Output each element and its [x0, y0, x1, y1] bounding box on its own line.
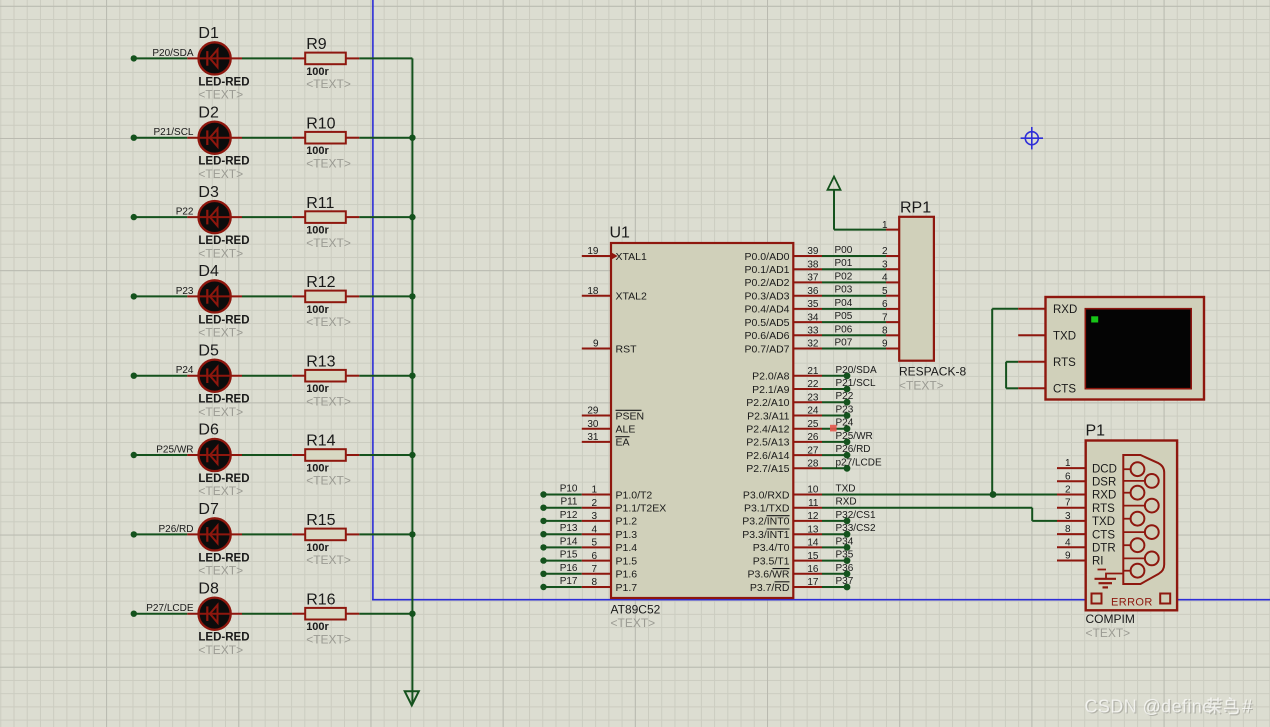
svg-text:17: 17 — [807, 577, 819, 588]
pin 26 P2.5/A13 wire P25/WR — [793, 441, 822, 443]
svg-text:5: 5 — [882, 286, 888, 297]
svg-text:1: 1 — [1065, 458, 1071, 469]
node P25/WR terminal dot — [131, 452, 137, 458]
svg-text:8: 8 — [591, 577, 597, 588]
wire D5 to R13 — [242, 375, 292, 377]
svg-text:P24: P24 — [176, 365, 194, 376]
LED D1 — [187, 25, 249, 102]
svg-text:100r: 100r — [306, 542, 329, 554]
wire RTS-CTS loopback — [1006, 361, 1018, 363]
svg-text:RXD: RXD — [1053, 304, 1077, 316]
junction on bus row 2 — [409, 135, 415, 141]
wire R16 to bus — [359, 613, 412, 615]
pin 5 P1.4 wire P14 — [540, 544, 546, 550]
resistor R16 100r — [292, 591, 359, 646]
svg-text:<TEXT>: <TEXT> — [1086, 626, 1131, 640]
svg-text:XTAL2: XTAL2 — [616, 291, 647, 303]
svg-text:100r: 100r — [306, 383, 329, 395]
pin 29 PSEN stub — [582, 415, 611, 417]
svg-text:ERROR: ERROR — [1111, 597, 1153, 609]
virtual terminal — [1046, 297, 1205, 400]
pin 10 P3.0/RXD wire TXD — [793, 494, 822, 496]
svg-text:<TEXT>: <TEXT> — [198, 167, 243, 181]
svg-text:RI: RI — [1092, 556, 1104, 568]
svg-text:P12: P12 — [560, 510, 578, 521]
svg-text:P13: P13 — [560, 523, 578, 534]
LED D5 — [187, 342, 249, 419]
svg-text:LED-RED: LED-RED — [198, 394, 249, 406]
svg-text:P00: P00 — [835, 245, 853, 256]
svg-text:DTR: DTR — [1092, 543, 1116, 555]
junction on bus row 3 — [409, 214, 415, 220]
svg-text:P1.3: P1.3 — [616, 529, 638, 541]
svg-text:P05: P05 — [835, 311, 853, 322]
svg-text:R11: R11 — [306, 195, 334, 212]
resistor R11 100r — [292, 195, 359, 250]
svg-text:D4: D4 — [198, 263, 219, 280]
svg-text:29: 29 — [587, 406, 599, 417]
wire R14 to bus — [359, 454, 412, 456]
svg-text:RP1: RP1 — [900, 200, 931, 217]
pin 2 P1.1/T2EX wire P11 — [540, 505, 546, 511]
svg-text:P1.6: P1.6 — [616, 569, 638, 581]
svg-text:AT89C52: AT89C52 — [611, 603, 661, 617]
junction on bus row 5 — [409, 373, 415, 379]
svg-text:D7: D7 — [198, 501, 219, 518]
svg-text:<TEXT>: <TEXT> — [198, 326, 243, 340]
svg-text:D2: D2 — [198, 104, 219, 121]
svg-text:P23: P23 — [176, 286, 194, 297]
svg-text:P15: P15 — [560, 550, 578, 561]
svg-text:P2.2/A10: P2.2/A10 — [746, 397, 789, 409]
svg-text:16: 16 — [807, 564, 819, 575]
pin 27 P2.6/A14 wire P26/RD — [793, 454, 822, 456]
resistor R12 100r — [292, 274, 359, 329]
pin 8 P1.7 wire P17 — [540, 584, 546, 590]
svg-text:P0.2/AD2: P0.2/AD2 — [745, 277, 790, 289]
pin 32 P0.7/AD7 wire P07 to RP1 — [793, 348, 822, 350]
pin 28 P2.7/A15 wire p27/LCDE — [793, 467, 822, 469]
COMPIM P1 — [1086, 423, 1178, 641]
svg-text:31: 31 — [587, 432, 599, 443]
wire D6 to R14 — [242, 454, 292, 456]
svg-text:37: 37 — [807, 273, 819, 284]
svg-text:TXD: TXD — [836, 484, 856, 495]
power terminal arrow — [828, 177, 841, 190]
svg-text:RST: RST — [616, 343, 638, 355]
svg-text:#: # — [1242, 696, 1253, 717]
junction node TXD/terminal — [990, 491, 997, 498]
svg-text:P0.3/AD3: P0.3/AD3 — [745, 291, 790, 303]
pin 3 P1.2 wire P12 — [540, 518, 546, 524]
svg-text:<TEXT>: <TEXT> — [306, 553, 351, 567]
svg-text:11: 11 — [808, 498, 819, 509]
pin 34 P0.5/AD5 wire P05 to RP1 — [793, 321, 822, 323]
wire terminal RXD drop — [991, 309, 993, 495]
sheet border vertical blue line — [372, 0, 374, 600]
svg-text:26: 26 — [807, 432, 819, 443]
svg-text:P2.0/A8: P2.0/A8 — [752, 371, 790, 383]
svg-text:P25/WR: P25/WR — [156, 444, 193, 455]
junction on bus row 4 — [409, 293, 415, 299]
svg-text:P1.2: P1.2 — [616, 516, 638, 528]
svg-text:4: 4 — [1065, 537, 1071, 548]
pin 1 P1.0/T2 wire P10 — [540, 491, 546, 497]
svg-text:LED-RED: LED-RED — [198, 632, 249, 644]
resistor R15 100r — [292, 512, 359, 567]
svg-text:100r: 100r — [306, 621, 329, 633]
svg-text:TXD: TXD — [1092, 516, 1115, 528]
wire R15 to bus — [359, 533, 412, 535]
svg-text:<TEXT>: <TEXT> — [306, 156, 351, 170]
wire D1 to R9 — [242, 57, 292, 59]
svg-text:P1.4: P1.4 — [616, 542, 638, 554]
svg-text:COMPIM: COMPIM — [1086, 612, 1135, 626]
svg-text:21: 21 — [807, 366, 819, 377]
LED D4 — [187, 263, 249, 340]
pin 25 P2.4/A12 wire P24 — [793, 428, 822, 430]
pin 17 P3.7/RD wire P37 — [793, 586, 822, 588]
svg-text:LED-RED: LED-RED — [198, 552, 249, 564]
wire R13 to bus — [359, 375, 412, 377]
svg-text:4: 4 — [882, 273, 888, 284]
resistor R9 100r — [292, 36, 359, 91]
svg-text:LED-RED: LED-RED — [198, 156, 249, 168]
svg-text:P0.6/AD6: P0.6/AD6 — [745, 330, 790, 342]
svg-text:D3: D3 — [198, 184, 219, 201]
svg-text:7: 7 — [882, 312, 888, 323]
svg-text:3: 3 — [591, 511, 597, 522]
wire D4 to R12 — [242, 295, 292, 297]
COMPIM pin 4 stub — [1057, 546, 1086, 548]
svg-text:P1.7: P1.7 — [616, 582, 638, 594]
svg-text:8: 8 — [882, 326, 888, 337]
svg-text:100r: 100r — [306, 66, 329, 78]
svg-text:<TEXT>: <TEXT> — [198, 88, 243, 102]
svg-text:2: 2 — [1065, 485, 1071, 496]
svg-text:P01: P01 — [835, 258, 853, 269]
LED D8 — [187, 580, 249, 657]
svg-text:R9: R9 — [306, 36, 327, 53]
pin 39 P0.0/AD0 wire P00 to RP1 — [793, 255, 822, 257]
pin 9 RST stub — [582, 348, 611, 350]
svg-text:P17: P17 — [560, 576, 578, 587]
pin 15 P3.5/T1 wire P35 — [793, 560, 822, 562]
svg-text:P1.0/T2: P1.0/T2 — [616, 489, 653, 501]
pin 31 EA stub — [582, 441, 611, 443]
pin 18 XTAL2 stub — [582, 295, 611, 297]
svg-text:P0.1/AD1: P0.1/AD1 — [745, 264, 790, 276]
svg-text:P3.5/T1: P3.5/T1 — [753, 555, 790, 567]
svg-text:LED-RED: LED-RED — [198, 314, 249, 326]
LED D3 — [187, 184, 249, 260]
svg-text:P2.4/A12: P2.4/A12 — [746, 424, 789, 436]
resistor pack RP1 RESPACK-8 — [899, 200, 966, 393]
svg-text:P3.2/INT0: P3.2/INT0 — [742, 516, 789, 528]
watermark CSDN — [1085, 696, 1255, 718]
svg-text:36: 36 — [807, 286, 819, 297]
svg-text:P3.6/WR: P3.6/WR — [747, 569, 789, 581]
pin 12 P3.2/INT0 wire P32/CS1 — [793, 520, 822, 522]
svg-text:P3.4/T0: P3.4/T0 — [753, 542, 790, 554]
svg-text:P14: P14 — [560, 536, 578, 547]
junction on bus row 7 — [409, 531, 415, 537]
svg-text:RESPACK-8: RESPACK-8 — [899, 365, 966, 379]
svg-text:R15: R15 — [306, 512, 335, 529]
svg-text:10: 10 — [807, 485, 819, 496]
pin 22 P2.1/A9 wire P21/SCL — [793, 388, 822, 390]
svg-text:35: 35 — [807, 299, 819, 310]
svg-text:P2.7/A15: P2.7/A15 — [746, 463, 789, 475]
junction on bus row 8 — [409, 611, 415, 617]
node P22 terminal dot — [131, 214, 137, 220]
svg-text:8: 8 — [1065, 524, 1071, 535]
svg-text:P23: P23 — [836, 405, 854, 416]
pin 6 P1.5 wire P15 — [540, 557, 546, 563]
pin 21 P2.0/A8 wire P20/SDA — [793, 375, 822, 377]
svg-text:100r: 100r — [306, 225, 329, 237]
svg-text:25: 25 — [807, 419, 819, 430]
node P21/SCL terminal dot — [131, 135, 137, 141]
svg-text:D5: D5 — [198, 342, 219, 359]
pin 36 P0.3/AD3 wire P03 to RP1 — [793, 295, 822, 297]
terminal pin RTS stub — [1018, 361, 1045, 363]
svg-text:CSDN @define: CSDN @define — [1085, 697, 1213, 717]
ground terminal arrow — [405, 691, 419, 705]
svg-text:P02: P02 — [835, 271, 853, 282]
junction on bus row 6 — [409, 452, 415, 458]
origin marker — [1021, 127, 1043, 149]
COMPIM pin 2 stub — [1057, 494, 1086, 496]
svg-text:D6: D6 — [198, 422, 219, 439]
svg-text:P03: P03 — [835, 285, 853, 296]
svg-text:7: 7 — [591, 564, 597, 575]
svg-text:R10: R10 — [306, 115, 335, 132]
svg-text:1: 1 — [591, 485, 597, 496]
svg-text:P0.0/AD0: P0.0/AD0 — [745, 251, 790, 263]
svg-text:DSR: DSR — [1092, 477, 1116, 489]
svg-text:P0.5/AD5: P0.5/AD5 — [745, 317, 790, 329]
svg-text:p27/LCDE: p27/LCDE — [836, 457, 882, 468]
svg-text:30: 30 — [587, 419, 599, 430]
svg-text:<TEXT>: <TEXT> — [899, 379, 944, 393]
svg-text:P16: P16 — [560, 563, 578, 574]
svg-text:RTS: RTS — [1092, 503, 1115, 515]
svg-text:P24: P24 — [836, 418, 854, 429]
svg-text:P11: P11 — [560, 497, 577, 508]
wire power to RP1 pin1 — [833, 190, 835, 230]
svg-text:P22: P22 — [176, 207, 194, 218]
resistor R14 100r — [292, 433, 359, 488]
svg-text:P22: P22 — [836, 391, 854, 402]
wire P24 to D5 — [134, 375, 188, 377]
svg-text:RXD: RXD — [1092, 490, 1116, 502]
svg-text:22: 22 — [807, 379, 819, 390]
svg-text:P3.1/TXD: P3.1/TXD — [744, 503, 790, 515]
svg-text:14: 14 — [807, 538, 819, 549]
wire P20/SDA to D1 — [134, 57, 188, 59]
svg-text:P2.1/A9: P2.1/A9 — [752, 384, 790, 396]
svg-text:33: 33 — [807, 326, 819, 337]
COMPIM pin 8 stub — [1057, 533, 1086, 535]
svg-text:2: 2 — [591, 498, 597, 509]
node P26/RD terminal dot — [131, 531, 137, 537]
svg-text:15: 15 — [807, 551, 819, 562]
terminal pin CTS stub — [1018, 387, 1045, 389]
svg-text:EA: EA — [616, 437, 630, 449]
svg-text:R14: R14 — [306, 433, 335, 450]
svg-text:DCD: DCD — [1092, 463, 1117, 475]
svg-text:P2.6/A14: P2.6/A14 — [746, 450, 789, 462]
pin 37 P0.2/AD2 wire P02 to RP1 — [793, 281, 822, 283]
svg-text:TXD: TXD — [1053, 330, 1076, 342]
terminal pin TXD stub — [1018, 334, 1045, 336]
svg-text:4: 4 — [591, 524, 597, 535]
svg-text:12: 12 — [807, 511, 819, 522]
svg-text:19: 19 — [587, 246, 599, 257]
svg-text:38: 38 — [807, 259, 819, 270]
svg-text:D1: D1 — [198, 25, 219, 42]
svg-text:P3.0/RXD: P3.0/RXD — [743, 489, 790, 501]
svg-text:R12: R12 — [306, 274, 335, 291]
svg-text:P21/SCL: P21/SCL — [153, 127, 193, 138]
wire R11 to bus — [359, 216, 412, 218]
svg-text:P10: P10 — [560, 484, 578, 495]
svg-text:LED-RED: LED-RED — [198, 76, 249, 88]
svg-text:RTS: RTS — [1053, 357, 1076, 369]
svg-text:R13: R13 — [306, 353, 335, 370]
svg-text:5: 5 — [591, 538, 597, 549]
svg-text:LED-RED: LED-RED — [198, 473, 249, 485]
svg-text:P1.5: P1.5 — [616, 555, 638, 567]
svg-text:<TEXT>: <TEXT> — [611, 616, 656, 630]
svg-text:7: 7 — [1065, 498, 1071, 509]
svg-text:39: 39 — [807, 246, 819, 257]
COMPIM pin 3 stub — [1057, 520, 1086, 522]
pin 19 XTAL1 stub — [582, 255, 611, 257]
svg-text:P21/SCL: P21/SCL — [836, 378, 876, 389]
svg-text:2: 2 — [882, 246, 888, 257]
svg-text:27: 27 — [807, 445, 819, 456]
svg-text:34: 34 — [807, 312, 819, 323]
COMPIM pin 6 stub — [1057, 480, 1086, 482]
svg-text:U1: U1 — [610, 225, 631, 242]
svg-text:XTAL1: XTAL1 — [616, 251, 647, 263]
pin 30 ALE stub — [582, 428, 611, 430]
COMPIM pin 9 stub — [1057, 560, 1086, 562]
pin 14 P3.4/T0 wire P34 — [793, 546, 822, 548]
svg-text:100r: 100r — [306, 304, 329, 316]
svg-text:23: 23 — [807, 392, 819, 403]
svg-text:24: 24 — [807, 406, 819, 417]
overlap marker on P2.4 wire — [830, 425, 837, 432]
wire D3 to R11 — [242, 216, 292, 218]
LED D7 — [187, 501, 249, 578]
svg-text:P26/RD: P26/RD — [158, 524, 193, 535]
pin 7 P1.6 wire P16 — [540, 571, 546, 577]
svg-text:<TEXT>: <TEXT> — [198, 484, 243, 498]
pin 33 P0.6/AD6 wire P06 to RP1 — [793, 334, 822, 336]
svg-text:32: 32 — [807, 339, 819, 350]
pin 24 P2.3/A11 wire P23 — [793, 415, 822, 417]
svg-text:P06: P06 — [835, 324, 853, 335]
wire P25/WR to D6 — [134, 454, 188, 456]
svg-text:<TEXT>: <TEXT> — [306, 632, 351, 646]
svg-text:<TEXT>: <TEXT> — [306, 236, 351, 250]
svg-text:9: 9 — [882, 339, 888, 350]
pin 16 P3.6/WR wire P36 — [793, 573, 822, 575]
svg-text:3: 3 — [1065, 511, 1071, 522]
svg-text:P0.7/AD7: P0.7/AD7 — [745, 343, 790, 355]
svg-text:LED-RED: LED-RED — [198, 235, 249, 247]
svg-text:<TEXT>: <TEXT> — [198, 564, 243, 578]
svg-text:18: 18 — [587, 286, 599, 297]
MCU U1 AT89C52 — [610, 225, 794, 631]
svg-text:D8: D8 — [198, 580, 219, 597]
svg-text:CTS: CTS — [1092, 529, 1115, 541]
svg-text:P33/CS2: P33/CS2 — [836, 523, 876, 534]
svg-text:<TEXT>: <TEXT> — [306, 315, 351, 329]
node P20/SDA terminal dot — [131, 55, 137, 61]
terminal pin RXD stub — [1018, 308, 1045, 310]
RP1 pin 1 stub — [886, 229, 899, 231]
svg-text:6: 6 — [591, 551, 597, 562]
pin 4 P1.3 wire P13 — [540, 531, 546, 537]
svg-text:P1.1/T2EX: P1.1/T2EX — [616, 503, 667, 515]
node P24 terminal dot — [131, 373, 137, 379]
wire P26/RD to D7 — [134, 533, 188, 535]
sheet border horizontal blue line — [372, 599, 1270, 601]
node P27/LCDE terminal dot — [131, 611, 137, 617]
svg-text:P2.5/A13: P2.5/A13 — [746, 437, 789, 449]
pin 23 P2.2/A10 wire P22 — [793, 401, 822, 403]
pin 11 P3.1/TXD wire RXD — [793, 507, 822, 509]
svg-text:P20/SDA: P20/SDA — [152, 48, 193, 59]
svg-text:RXD: RXD — [836, 497, 857, 508]
svg-text:P25/WR: P25/WR — [836, 431, 873, 442]
svg-text:P26/RD: P26/RD — [836, 444, 871, 455]
svg-text:P07: P07 — [835, 338, 853, 349]
svg-text:P20/SDA: P20/SDA — [836, 365, 877, 376]
wire P23 to D4 — [134, 295, 188, 297]
svg-text:100r: 100r — [306, 145, 329, 157]
COMPIM pin 7 stub — [1057, 507, 1086, 509]
svg-text:<TEXT>: <TEXT> — [198, 246, 243, 260]
LED D2 — [187, 104, 249, 180]
node P23 terminal dot — [131, 293, 137, 299]
wire P22 to D3 — [134, 216, 188, 218]
svg-text:PSEN: PSEN — [616, 410, 645, 422]
wire vertical bus right of resistors — [411, 58, 413, 703]
svg-text:P3.3/INT1: P3.3/INT1 — [742, 529, 789, 541]
pin 38 P0.1/AD1 wire P01 to RP1 — [793, 268, 822, 270]
svg-text:28: 28 — [807, 459, 819, 470]
svg-text:<TEXT>: <TEXT> — [306, 474, 351, 488]
svg-text:P2.3/A11: P2.3/A11 — [747, 410, 790, 422]
wire R12 to bus — [359, 295, 412, 297]
svg-text:<TEXT>: <TEXT> — [198, 405, 243, 419]
svg-text:ALE: ALE — [616, 424, 636, 436]
svg-text:6: 6 — [1065, 471, 1071, 482]
wire D8 to R16 — [242, 613, 292, 615]
COMPIM pin 1 stub — [1057, 467, 1086, 469]
pin 13 P3.3/INT1 wire P33/CS2 — [793, 533, 822, 535]
wire TXD net U1.P3.0 to COMPIM RXD — [822, 494, 1057, 496]
wire D2 to R10 — [242, 137, 292, 139]
svg-text:100r: 100r — [306, 463, 329, 475]
svg-text:13: 13 — [807, 524, 819, 535]
resistor R10 100r — [292, 115, 359, 170]
